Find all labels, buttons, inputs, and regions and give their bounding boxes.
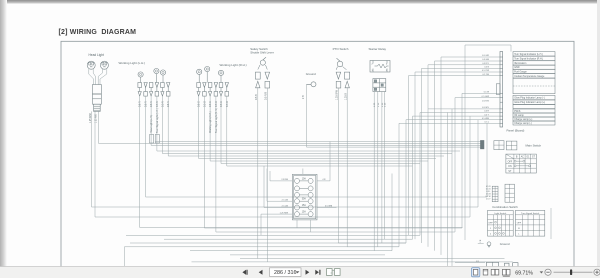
svg-text:0.5 W/B: 0.5 W/B	[325, 206, 333, 208]
svg-text:0.5 R: 0.5 R	[156, 101, 159, 107]
svg-text:0.5 Y: 0.5 Y	[484, 114, 489, 116]
svg-text:Shuttle Shift Lever: Shuttle Shift Lever	[250, 51, 274, 55]
svg-text:286 / 316: 286 / 316	[274, 270, 296, 276]
svg-text:30A: 30A	[302, 198, 307, 201]
svg-text:Glow Plug Indicator Lamp (-): Glow Plug Indicator Lamp (-)	[514, 97, 545, 100]
svg-text:5 R: 5 R	[476, 261, 480, 263]
svg-text:0.5 W/L: 0.5 W/L	[482, 107, 490, 109]
svg-text:0.5 Y: 0.5 Y	[486, 199, 491, 201]
svg-text:2.5 L/B: 2.5 L/B	[282, 206, 289, 208]
svg-text:10A: 10A	[302, 177, 307, 180]
svg-text:0.5 G: 0.5 G	[209, 101, 212, 107]
svg-text:0.5 Y/W: 0.5 Y/W	[482, 70, 489, 72]
svg-text:PW/S: PW/S	[514, 110, 521, 113]
svg-text:Turn Signal Light (L.H.): Turn Signal Light (L.H.)	[156, 108, 159, 133]
svg-text:Ground: Ground	[306, 72, 316, 76]
svg-text:Light Switch: Light Switch	[494, 212, 507, 215]
svg-text:0.5 R: 0.5 R	[161, 101, 164, 107]
svg-text:2 B: 2 B	[302, 95, 305, 99]
svg-text:AC: AC	[521, 156, 525, 159]
svg-text:Head Light (L.H.): Head Light (L.H.)	[150, 115, 153, 133]
svg-text:2.5 L/B: 2.5 L/B	[282, 199, 289, 201]
svg-text:69.71%: 69.71%	[515, 270, 533, 276]
svg-text:Head Light: Head Light	[89, 53, 105, 57]
svg-text:OFF: OFF	[517, 222, 522, 224]
svg-text:4 R: 4 R	[322, 179, 326, 181]
svg-text:Turn Signal Light (R.H.): Turn Signal Light (R.H.)	[215, 108, 218, 133]
svg-text:Illumination: Illumination	[514, 62, 527, 65]
svg-text:Working Light (R.H.): Working Light (R.H.)	[220, 63, 247, 67]
svg-text:OFF: OFF	[508, 161, 513, 163]
svg-text:0.5 R: 0.5 R	[145, 101, 148, 107]
svg-text:Turn Signal Switch: Turn Signal Switch	[521, 212, 540, 215]
svg-text:Coolant Temperature Gauge: Coolant Temperature Gauge	[514, 75, 545, 78]
svg-text:Oil Lamp: Oil Lamp	[514, 114, 524, 117]
svg-text:Turn Signal Indicator (L.H.): Turn Signal Indicator (L.H.)	[514, 53, 543, 56]
svg-text:15A: 15A	[302, 211, 307, 214]
svg-text:[2] WIRING DIAGRAM: [2] WIRING DIAGRAM	[59, 29, 137, 36]
svg-text:Turn Signal Indicator (R.H.): Turn Signal Indicator (R.H.)	[514, 57, 543, 60]
svg-text:15A: 15A	[302, 204, 307, 207]
svg-text:Glow Plug Indicator Lamp (+): Glow Plug Indicator Lamp (+)	[514, 101, 545, 104]
svg-text:Main Switch: Main Switch	[526, 143, 542, 147]
svg-text:Fuel Gauge: Fuel Gauge	[514, 70, 527, 73]
svg-text:0.5 W/B: 0.5 W/B	[482, 118, 490, 120]
svg-text:0.5 W: 0.5 W	[484, 92, 489, 94]
svg-text:0.5 R/G: 0.5 R/G	[482, 100, 489, 102]
svg-text:GND: GND	[514, 66, 520, 69]
svg-text:0.5 G: 0.5 G	[215, 101, 218, 107]
svg-text:0.5 R: 0.5 R	[484, 111, 489, 113]
svg-text:OFF: OFF	[488, 222, 493, 224]
svg-text:ON: ON	[508, 166, 512, 168]
svg-text:0.5 G/B: 0.5 G/B	[482, 59, 489, 61]
svg-text:1.25 R/B: 1.25 R/B	[96, 114, 98, 123]
svg-text:Working Light (R.H.): Working Light (R.H.)	[209, 111, 212, 133]
svg-text:0.5 R: 0.5 R	[139, 101, 142, 107]
svg-text:0.5 G/R: 0.5 G/R	[482, 55, 489, 57]
svg-text:0.5 R/Y: 0.5 R/Y	[482, 63, 489, 65]
svg-text:0.5 G: 0.5 G	[198, 101, 201, 107]
svg-text:2.5 R/B: 2.5 R/B	[281, 179, 288, 181]
svg-text:Charge Lamp (-): Charge Lamp (-)	[514, 122, 532, 125]
svg-text:1.25 R/W: 1.25 R/W	[280, 212, 288, 214]
svg-text:Charge Lamp (+): Charge Lamp (+)	[514, 118, 532, 121]
svg-text:Combination Switch: Combination Switch	[492, 205, 518, 209]
svg-text:0.5 G/W: 0.5 G/W	[482, 96, 489, 98]
svg-text:1.25 B/W: 1.25 B/W	[336, 89, 339, 100]
svg-text:0.5 B: 0.5 B	[484, 67, 489, 69]
svg-text:0.5 R: 0.5 R	[167, 101, 170, 107]
svg-text:Working Light (L.H.): Working Light (L.H.)	[119, 61, 146, 65]
svg-text:0.5 R: 0.5 R	[150, 101, 153, 107]
svg-text:0.5 G: 0.5 G	[203, 101, 206, 107]
svg-text:0.5 Y/B: 0.5 Y/B	[482, 74, 489, 76]
svg-text:Panel (Board): Panel (Board)	[507, 128, 525, 132]
svg-text:Ground: Ground	[500, 242, 510, 246]
svg-text:0.5 B: 0.5 B	[255, 94, 258, 100]
svg-text:0.5 R/B: 0.5 R/B	[264, 92, 267, 100]
svg-text:0.5 G: 0.5 G	[220, 101, 223, 107]
svg-text:0.5 G: 0.5 G	[226, 101, 229, 107]
svg-text:Starter Relay: Starter Relay	[369, 47, 387, 51]
svg-text:PTO Switch: PTO Switch	[333, 47, 349, 51]
